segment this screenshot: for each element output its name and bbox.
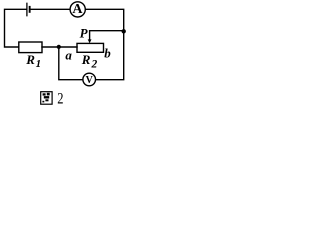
svg-text:b: b [104, 46, 111, 61]
svg-text:A: A [72, 2, 83, 17]
svg-text:V: V [86, 75, 94, 86]
svg-text:a: a [65, 48, 72, 63]
svg-text:P: P [80, 26, 89, 41]
svg-text:2: 2 [57, 90, 63, 108]
